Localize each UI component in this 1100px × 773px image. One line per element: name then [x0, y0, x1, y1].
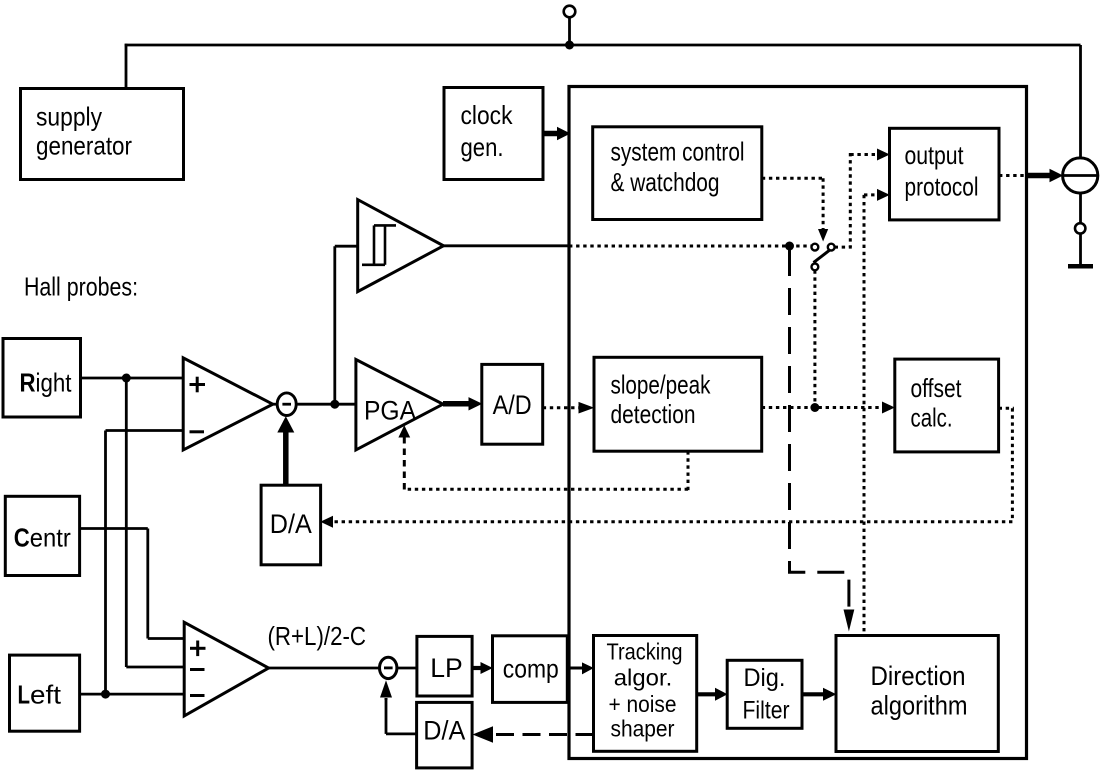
svg-text:algorithm: algorithm [871, 691, 968, 721]
svg-text:slope/peak: slope/peak [611, 369, 712, 399]
svg-text:algor.: algor. [614, 664, 673, 690]
svg-text:D/A: D/A [423, 715, 465, 745]
svg-text:generator: generator [36, 131, 132, 161]
svg-text:shaper: shaper [611, 716, 675, 742]
svg-text:comp: comp [503, 654, 559, 684]
svg-text:PGA: PGA [364, 396, 416, 426]
svg-text:+ noise: + noise [609, 691, 677, 717]
svg-text:clock: clock [461, 100, 514, 130]
svg-text:A/D: A/D [493, 390, 532, 420]
svg-text:Tracking: Tracking [607, 639, 683, 665]
svg-text:D/A: D/A [270, 509, 312, 539]
svg-text:Right: Right [20, 367, 73, 397]
svg-text:Centr: Centr [14, 522, 71, 552]
svg-text:calc.: calc. [911, 403, 953, 433]
svg-text:Hall probes:: Hall probes: [24, 272, 138, 302]
svg-text:offset: offset [911, 373, 963, 403]
svg-text:Direction: Direction [871, 661, 966, 691]
svg-text:detection: detection [611, 399, 696, 429]
svg-text:& watchdog: & watchdog [611, 167, 720, 197]
svg-text:supply: supply [36, 101, 102, 131]
svg-text:gen.: gen. [461, 132, 504, 162]
svg-text:protocol: protocol [905, 172, 979, 202]
svg-text:system control: system control [611, 137, 745, 167]
svg-text:Left: Left [18, 680, 62, 710]
svg-text:output: output [905, 140, 965, 170]
svg-text:(R+L)/2-C: (R+L)/2-C [268, 623, 367, 651]
svg-text:LP: LP [430, 653, 463, 683]
svg-text:Dig.: Dig. [744, 664, 786, 692]
svg-text:Filter: Filter [743, 697, 790, 725]
